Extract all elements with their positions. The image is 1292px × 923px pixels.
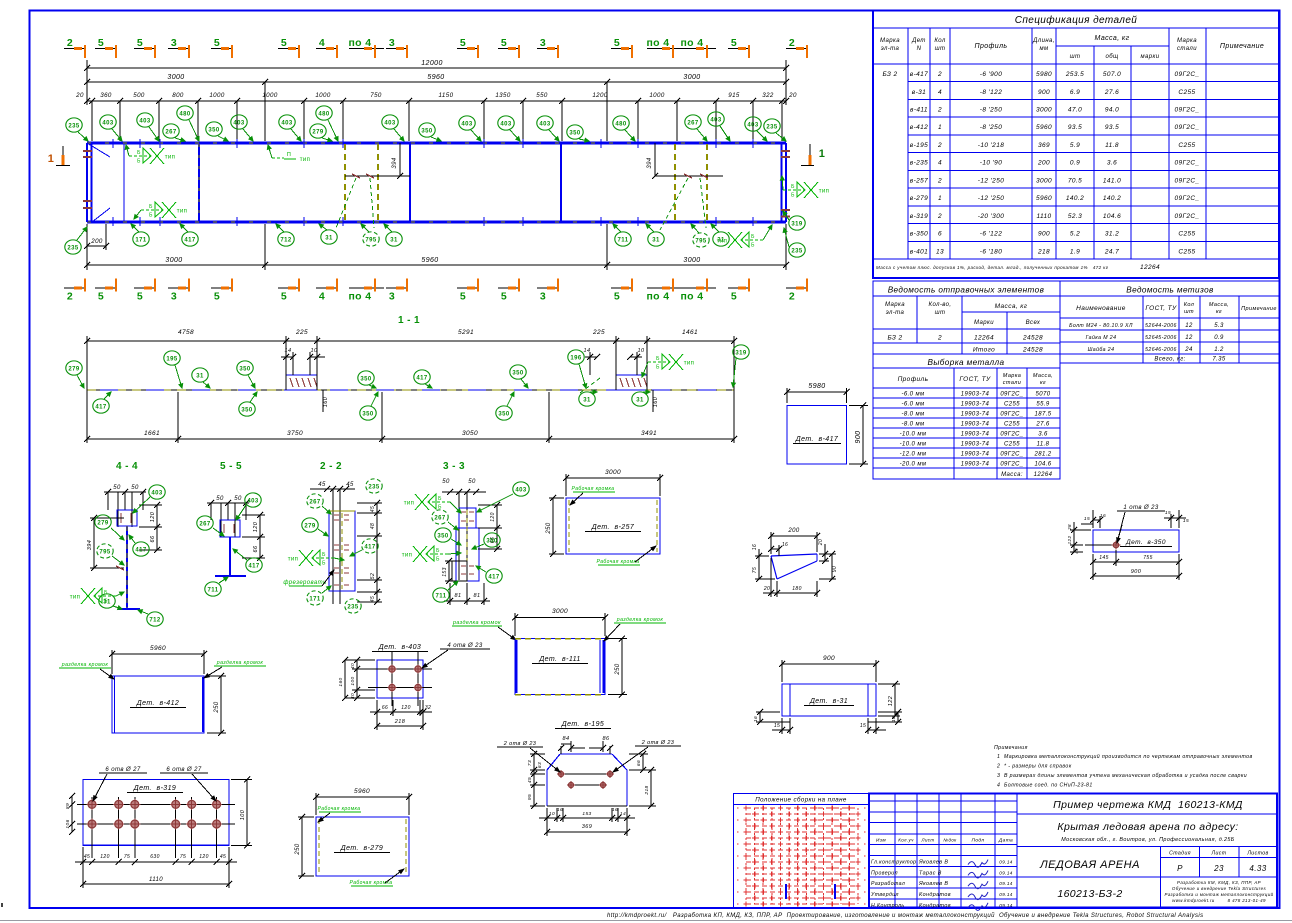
- svg-text:4 отв Ø 23: 4 отв Ø 23: [447, 643, 482, 649]
- svg-text:1661: 1661: [144, 430, 160, 437]
- svg-text:250: 250: [214, 701, 220, 713]
- svg-text:86: 86: [603, 736, 610, 742]
- svg-text:711: 711: [618, 237, 629, 243]
- beam stiffeners: [123, 144, 125, 221]
- svg-text:19903-74: 19903-74: [961, 452, 990, 458]
- svg-text:в-319: в-319: [910, 213, 928, 220]
- svg-text:5960: 5960: [1036, 124, 1052, 131]
- title block main: [869, 794, 1277, 908]
- svg-text:Положение сборки на плане: Положение сборки на плане: [755, 797, 847, 804]
- svg-text:16: 16: [752, 544, 758, 550]
- svg-text:5960: 5960: [427, 74, 444, 81]
- svg-text:47.0: 47.0: [1068, 107, 1082, 114]
- svg-text:14: 14: [620, 811, 626, 817]
- svg-text:Марка: Марка: [1003, 373, 1021, 379]
- svg-text:Длина,: Длина,: [1032, 38, 1055, 44]
- svg-text:3750: 3750: [287, 430, 303, 437]
- svg-text:235: 235: [347, 604, 358, 610]
- svg-text:417: 417: [488, 574, 499, 580]
- svg-text:253.5: 253.5: [1065, 71, 1084, 78]
- svg-text:Б: Б: [436, 548, 440, 554]
- svg-text:89: 89: [65, 803, 71, 809]
- svg-text:3000: 3000: [605, 469, 621, 476]
- svg-text:350: 350: [437, 533, 448, 539]
- svg-text:www.kmdproekt.ru 8 478: www.kmdproekt.ru 8 478 213-01-49: [1172, 898, 1266, 903]
- svg-text:Примечание: Примечание: [1220, 43, 1264, 50]
- svg-text:403: 403: [151, 490, 162, 496]
- svg-text:Рабочая кромка: Рабочая кромка: [317, 806, 360, 812]
- svg-text:44: 44: [1074, 548, 1079, 554]
- svg-text:369: 369: [1038, 142, 1050, 149]
- svg-text:Дет. в-195: Дет. в-195: [561, 721, 604, 728]
- svg-text:09Г2С_: 09Г2С_: [1174, 195, 1199, 202]
- svg-text:0.9: 0.9: [1070, 160, 1080, 167]
- svg-text:795: 795: [365, 237, 376, 243]
- svg-text:-8 ′250: -8 ′250: [980, 124, 1002, 131]
- svg-text:1000: 1000: [649, 92, 665, 99]
- svg-text:403: 403: [281, 120, 292, 126]
- svg-text:500: 500: [133, 92, 145, 99]
- svg-text:Дет. в-417: Дет. в-417: [795, 436, 839, 443]
- svg-text:в-195: в-195: [910, 142, 928, 149]
- svg-text:81: 81: [455, 593, 462, 599]
- svg-text:09Г2С_: 09Г2С_: [1174, 177, 1199, 184]
- svg-text:5: 5: [98, 37, 104, 49]
- svg-text:16: 16: [891, 716, 897, 722]
- svg-text:Б: Б: [137, 150, 141, 156]
- svg-text:1: 1: [938, 195, 942, 202]
- svg-text:Масса, кг: Масса, кг: [995, 303, 1028, 310]
- svg-text:Б: Б: [751, 234, 755, 240]
- svg-text:Марка: Марка: [885, 302, 905, 308]
- svg-text:Б: Б: [438, 505, 442, 511]
- svg-text:Б: Б: [656, 356, 660, 362]
- svg-text:900: 900: [855, 431, 862, 444]
- svg-text:14: 14: [285, 348, 292, 354]
- svg-text:403: 403: [247, 498, 258, 504]
- svg-text:20: 20: [763, 586, 770, 592]
- svg-text:1.2: 1.2: [1214, 347, 1224, 353]
- svg-text:6 отв Ø 27: 6 отв Ø 27: [105, 767, 140, 773]
- svg-text:Профиль: Профиль: [898, 376, 929, 383]
- svg-text:2: 2: [789, 291, 795, 303]
- svg-text:в-412: в-412: [910, 124, 928, 131]
- svg-text:09Г2С_: 09Г2С_: [1174, 107, 1199, 114]
- svg-text:800: 800: [172, 92, 184, 99]
- svg-text:2: 2: [67, 291, 73, 303]
- svg-text:5: 5: [281, 37, 287, 49]
- svg-text:66: 66: [636, 760, 642, 766]
- svg-text:http://kmdproekt.ru/ Разрабо: http://kmdproekt.ru/ Разработка КП, КМД,…: [607, 912, 1204, 919]
- svg-text:31: 31: [652, 237, 660, 243]
- svg-text:120: 120: [253, 521, 259, 532]
- svg-text:-8.0 мм: -8.0 мм: [901, 422, 924, 428]
- svg-text:900: 900: [823, 655, 835, 662]
- svg-text:403: 403: [233, 120, 244, 126]
- svg-text:319: 319: [735, 350, 746, 356]
- svg-text:-6.0 мм: -6.0 мм: [901, 392, 924, 398]
- green circles top row: [66, 118, 82, 132]
- det v-417: [787, 406, 847, 465]
- svg-text:27.6: 27.6: [1104, 89, 1119, 96]
- svg-text:350: 350: [512, 370, 523, 376]
- svg-text:5960: 5960: [1036, 195, 1052, 202]
- blue assembly marks: [785, 884, 787, 899]
- svg-text:-8 ′122: -8 ′122: [980, 89, 1002, 96]
- svg-text:104.6: 104.6: [1034, 462, 1051, 468]
- svg-text:12264: 12264: [1140, 264, 1160, 271]
- svg-text:417: 417: [135, 547, 146, 553]
- svg-text:09Г2С_: 09Г2С_: [1174, 71, 1199, 78]
- svg-text:в-279: в-279: [910, 195, 928, 202]
- svg-text:417: 417: [248, 563, 259, 569]
- svg-text:3: 3: [171, 37, 177, 49]
- svg-text:235: 235: [791, 248, 802, 254]
- svg-text:Дет. в-279: Дет. в-279: [340, 845, 383, 852]
- svg-text:5: 5: [731, 37, 737, 49]
- svg-text:267: 267: [309, 499, 320, 505]
- svg-text:5: 5: [501, 37, 507, 49]
- svg-text:16: 16: [782, 542, 788, 548]
- svg-text:Б: Б: [149, 204, 153, 210]
- svg-text:2: 2: [937, 142, 942, 149]
- svg-text:Б: Б: [751, 243, 755, 249]
- svg-text:Тарас В: Тарас В: [919, 870, 942, 876]
- svg-text:50: 50: [468, 479, 476, 485]
- svg-text:в-257: в-257: [910, 177, 928, 184]
- svg-text:4: 4: [938, 89, 942, 96]
- svg-text:480: 480: [318, 111, 329, 117]
- svg-text:19903-74: 19903-74: [961, 442, 990, 448]
- svg-text:-6 ′122: -6 ′122: [980, 231, 1002, 238]
- svg-text:403: 403: [384, 120, 395, 126]
- svg-text:3491: 3491: [641, 430, 657, 437]
- svg-text:ГОСТ, ТУ: ГОСТ, ТУ: [1145, 305, 1177, 312]
- svg-text:20: 20: [75, 92, 84, 99]
- beam bottom flange: [87, 221, 786, 224]
- svg-text:24528: 24528: [1022, 347, 1043, 354]
- svg-text:Ведомость отправочных элементо: Ведомость отправочных элементов: [888, 286, 1045, 295]
- bottom separator line: [0, 920, 1292, 922]
- svg-text:Рабочая кромка: Рабочая кромка: [596, 559, 639, 565]
- svg-text:разделка кромок: разделка кромок: [216, 660, 264, 666]
- svg-text:1: 1: [48, 153, 55, 165]
- svg-text:1 отв Ø 23: 1 отв Ø 23: [1123, 505, 1158, 511]
- svg-text:16: 16: [612, 807, 618, 813]
- beam dimension row 12000: [86, 60, 88, 105]
- svg-text:ЛЕДОВАЯ АРЕНА: ЛЕДОВАЯ АРЕНА: [1039, 859, 1140, 871]
- svg-text:225: 225: [295, 329, 308, 336]
- svg-text:Лист: Лист: [1211, 851, 1227, 857]
- det v-111: [514, 613, 516, 636]
- svg-text:369: 369: [582, 824, 592, 830]
- green circles bottom row: [65, 240, 81, 254]
- svg-text:171: 171: [309, 596, 320, 602]
- svg-text:Б: Б: [322, 561, 326, 567]
- svg-text:15: 15: [774, 723, 780, 729]
- svg-text:350: 350: [421, 128, 432, 134]
- svg-text:5.9: 5.9: [1070, 142, 1080, 149]
- svg-text:Выборка металла: Выборка металла: [928, 358, 1005, 367]
- svg-text:480: 480: [615, 121, 626, 127]
- svg-text:19903-74: 19903-74: [961, 412, 990, 418]
- svg-text:70.5: 70.5: [1068, 177, 1082, 184]
- svg-text:в-401: в-401: [910, 248, 928, 255]
- dashed stiffener pair left: [344, 144, 346, 221]
- svg-text:Б: Б: [322, 552, 326, 558]
- svg-text:160: 160: [338, 677, 344, 686]
- svg-text:3.6: 3.6: [1038, 432, 1048, 438]
- svg-text:48: 48: [370, 523, 376, 529]
- svg-text:250: 250: [546, 522, 552, 534]
- svg-text:2 - 2: 2 - 2: [320, 461, 342, 472]
- svg-text:С255: С255: [1004, 442, 1020, 448]
- svg-text:27.6: 27.6: [1035, 422, 1050, 428]
- beam left corner details: [87, 143, 110, 157]
- svg-text:141.0: 141.0: [1103, 177, 1121, 184]
- svg-text:5: 5: [614, 291, 620, 303]
- svg-text:2: 2: [67, 37, 73, 49]
- svg-text:160: 160: [653, 396, 659, 407]
- svg-text:БЗ 2: БЗ 2: [887, 335, 902, 342]
- svg-text:66: 66: [150, 535, 156, 542]
- svg-text:5070: 5070: [1036, 392, 1051, 398]
- svg-text:Р: Р: [1177, 864, 1183, 873]
- svg-text:403: 403: [139, 118, 150, 124]
- svg-text:5.2: 5.2: [1070, 231, 1080, 238]
- svg-text:стали: стали: [1177, 46, 1197, 52]
- svg-text:ГОСТ, ТУ: ГОСТ, ТУ: [959, 376, 991, 383]
- svg-text:711: 711: [436, 593, 447, 599]
- svg-text:1: 1: [938, 124, 942, 131]
- svg-text:200: 200: [787, 528, 799, 534]
- svg-text:Дет. в-403: Дет. в-403: [378, 644, 421, 651]
- svg-text:31: 31: [325, 235, 333, 241]
- svg-text:в-235: в-235: [910, 160, 928, 167]
- svg-text:31: 31: [196, 373, 204, 379]
- svg-text:1000: 1000: [209, 92, 225, 99]
- svg-text:Обучение и внедрение Tekla Str: Обучение и внедрение Tekla Structures: [1172, 886, 1267, 891]
- svg-text:19903-74: 19903-74: [961, 392, 990, 398]
- svg-text:5: 5: [214, 291, 220, 303]
- svg-text:394: 394: [87, 540, 93, 550]
- svg-text:52: 52: [370, 573, 376, 579]
- svg-text:200: 200: [90, 238, 103, 245]
- svg-text:3050: 3050: [462, 430, 478, 437]
- svg-text:350: 350: [239, 366, 250, 372]
- section 1-1 main line: [87, 389, 734, 391]
- svg-text:50: 50: [216, 496, 224, 502]
- svg-text:Дет. в-319: Дет. в-319: [133, 785, 176, 792]
- svg-text:по 4: по 4: [680, 291, 703, 303]
- svg-text:279: 279: [68, 366, 79, 372]
- svg-text:по 4: по 4: [646, 291, 669, 303]
- svg-text:5960: 5960: [421, 257, 438, 264]
- svg-text:Кол-во,: Кол-во,: [929, 302, 952, 308]
- svg-text:52644-2006: 52644-2006: [1145, 323, 1177, 329]
- svg-text:Б: Б: [656, 365, 660, 371]
- svg-text:12000: 12000: [421, 60, 442, 67]
- svg-text:5: 5: [501, 291, 507, 303]
- svg-text:-8 ′250: -8 ′250: [980, 107, 1002, 114]
- svg-text:403: 403: [747, 122, 758, 128]
- svg-text:Наименование: Наименование: [1076, 305, 1126, 312]
- svg-text:403: 403: [539, 121, 550, 127]
- svg-text:16: 16: [753, 716, 759, 722]
- svg-text:БЗ 2: БЗ 2: [882, 71, 897, 78]
- svg-text:200: 200: [1037, 160, 1050, 167]
- det v-412: [111, 650, 113, 674]
- svg-text:235: 235: [68, 123, 79, 129]
- svg-text:350: 350: [569, 130, 580, 136]
- connection box 1: [286, 375, 317, 390]
- svg-text:50: 50: [131, 485, 139, 491]
- svg-text:279: 279: [97, 520, 108, 526]
- box2 small dims 14 10: [589, 352, 591, 375]
- svg-text:-12.0 мм: -12.0 мм: [900, 452, 927, 458]
- svg-text:235: 235: [368, 484, 379, 490]
- svg-text:218: 218: [644, 785, 650, 795]
- svg-text:24: 24: [1184, 347, 1193, 353]
- svg-text:403: 403: [461, 121, 472, 127]
- svg-text:Б: Б: [438, 496, 442, 502]
- svg-text:507.0: 507.0: [1103, 71, 1121, 78]
- svg-text:15: 15: [1183, 518, 1189, 524]
- svg-text:Ведомость метизов: Ведомость метизов: [1126, 286, 1214, 295]
- svg-text:11.8: 11.8: [1105, 142, 1119, 149]
- svg-text:7.35: 7.35: [1212, 357, 1226, 363]
- svg-text:4: 4: [319, 291, 325, 303]
- svg-text:15: 15: [860, 723, 866, 729]
- svg-text:50: 50: [442, 479, 450, 485]
- svg-text:3000: 3000: [683, 74, 700, 81]
- svg-text:5291: 5291: [458, 329, 474, 336]
- svg-text:С255: С255: [1004, 422, 1020, 428]
- svg-text:Всех: Всех: [1026, 320, 1041, 326]
- svg-text:1.9: 1.9: [1070, 248, 1080, 255]
- svg-text:2 отв Ø 23: 2 отв Ø 23: [641, 740, 675, 746]
- svg-text:45: 45: [527, 777, 533, 783]
- svg-text:145: 145: [1099, 555, 1109, 561]
- svg-text:5: 5: [214, 37, 220, 49]
- svg-text:19903-74: 19903-74: [961, 402, 990, 408]
- svg-text:Примечание: Примечание: [1241, 306, 1277, 312]
- svg-text:в-411: в-411: [910, 107, 928, 114]
- svg-text:Рабочая кромка: Рабочая кромка: [571, 486, 614, 492]
- box1 small dims 14 10: [292, 352, 294, 375]
- svg-text:Спецификация деталей: Спецификация деталей: [1015, 14, 1138, 26]
- svg-text:218: 218: [394, 719, 406, 725]
- svg-text:1 - 1: 1 - 1: [398, 315, 420, 326]
- svg-text:фрезеровать: фрезеровать: [283, 580, 326, 586]
- svg-text:417: 417: [184, 237, 195, 243]
- svg-text:2: 2: [937, 107, 942, 114]
- svg-text:350: 350: [362, 411, 373, 417]
- svg-text:Б: Б: [137, 159, 141, 165]
- svg-text:2: 2: [937, 213, 942, 220]
- svg-text:50: 50: [234, 496, 242, 502]
- svg-text:4 - 4: 4 - 4: [116, 461, 138, 472]
- svg-text:Кол: Кол: [1184, 302, 1194, 308]
- svg-text:40: 40: [350, 663, 356, 669]
- svg-text:эл-та: эл-та: [881, 46, 900, 52]
- svg-text:Марка: Марка: [1177, 38, 1197, 44]
- svg-text:6 отв Ø 27: 6 отв Ø 27: [166, 767, 201, 773]
- beam dimension row small: [87, 100, 786, 102]
- svg-text:394: 394: [392, 157, 398, 168]
- svg-text:марки: марки: [1141, 54, 1160, 60]
- svg-text:218: 218: [1037, 248, 1050, 255]
- svg-text:Дет. в-111: Дет. в-111: [538, 656, 580, 663]
- svg-text:мм: мм: [1039, 46, 1048, 52]
- svg-text:5: 5: [137, 291, 143, 303]
- svg-text:31.2: 31.2: [1105, 231, 1119, 238]
- svg-text:319: 319: [791, 221, 802, 227]
- svg-text:1: 1: [819, 148, 826, 160]
- svg-text:45: 45: [220, 854, 226, 860]
- svg-text:5: 5: [460, 37, 466, 49]
- weld near box2: [642, 362, 648, 377]
- svg-text:5: 5: [460, 291, 466, 303]
- 394 dim right: [654, 143, 656, 176]
- small flange ticks: [112, 139, 114, 148]
- svg-text:П: П: [287, 152, 291, 158]
- svg-text:15: 15: [1084, 516, 1090, 522]
- svg-text:Б: Б: [436, 557, 440, 563]
- polozhenie sborki box: [734, 794, 870, 908]
- svg-text:4758: 4758: [178, 329, 194, 336]
- svg-text:№док: №док: [943, 838, 957, 843]
- svg-text:23: 23: [1213, 864, 1224, 873]
- svg-text:45: 45: [370, 506, 376, 512]
- svg-text:С255: С255: [1178, 89, 1195, 96]
- det v-319: [83, 780, 229, 846]
- svg-text:20: 20: [818, 539, 824, 546]
- svg-text:279: 279: [304, 523, 315, 529]
- svg-text:755: 755: [1143, 555, 1153, 561]
- svg-text:2 * - размеры для справок: 2 * - размеры для справок: [996, 764, 1072, 770]
- svg-text:Марка: Марка: [880, 38, 900, 44]
- svg-text:5 - 5: 5 - 5: [220, 461, 242, 472]
- det v-31: [781, 660, 783, 682]
- svg-text:120: 120: [150, 511, 156, 522]
- svg-text:52646-2006: 52646-2006: [1145, 347, 1177, 353]
- svg-text:90: 90: [832, 566, 838, 572]
- svg-text:0.9: 0.9: [1214, 335, 1224, 341]
- svg-text:Всего, кг:: Всего, кг:: [1154, 357, 1185, 363]
- svg-text:тип: тип: [819, 189, 830, 195]
- svg-text:350: 350: [208, 127, 219, 133]
- svg-text:45: 45: [84, 854, 90, 860]
- svg-text:417: 417: [364, 544, 375, 550]
- svg-text:-20 ′300: -20 ′300: [978, 213, 1004, 220]
- svg-text:в-417: в-417: [910, 71, 928, 78]
- svg-text:Б: Б: [104, 599, 108, 605]
- svg-text:по 4: по 4: [348, 291, 371, 303]
- svg-text:09.14: 09.14: [999, 892, 1013, 897]
- svg-text:N: N: [917, 46, 922, 52]
- svg-text:12: 12: [1185, 323, 1193, 329]
- svg-text:-6 ′900: -6 ′900: [980, 71, 1002, 78]
- svg-text:-10 ′218: -10 ′218: [978, 142, 1004, 149]
- svg-text:31: 31: [583, 397, 591, 403]
- svg-text:5980: 5980: [1036, 71, 1052, 78]
- svg-text:3: 3: [171, 291, 177, 303]
- svg-text:900: 900: [1131, 569, 1142, 575]
- svg-text:Стадия: Стадия: [1169, 851, 1191, 857]
- svg-text:Утвердил: Утвердил: [871, 892, 899, 898]
- svg-text:-10.0 мм: -10.0 мм: [900, 442, 927, 448]
